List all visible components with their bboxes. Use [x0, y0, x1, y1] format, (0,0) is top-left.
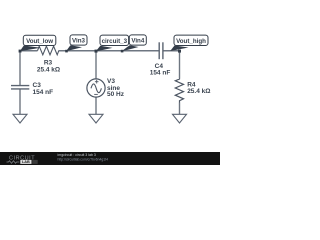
resistor R4 label — [187, 82, 210, 96]
node Vin4 flag wedge — [122, 45, 139, 51]
capacitor C4 — [159, 42, 163, 59]
node Vout_low tag — [23, 35, 56, 45]
capacitor C4 label — [150, 63, 171, 77]
watermark CircuitLab logo — [7, 156, 38, 165]
wire middle vertical lower (V3 bottom to ground) — [95, 97, 97, 114]
svg-text:Vout_low: Vout_low — [26, 38, 53, 45]
node Vin4 tag — [129, 35, 146, 45]
svg-text:imgcircuit : circuit 3 lab 3: imgcircuit : circuit 3 lab 3 — [58, 153, 96, 157]
node Vout_low flag wedge — [20, 46, 41, 52]
ground under V3 — [89, 114, 103, 123]
svg-text:154 nF: 154 nF — [150, 70, 171, 77]
junction dot at Vout_low corner — [19, 50, 22, 53]
svg-text:Vin4: Vin4 — [131, 38, 145, 45]
node circuit_3 flag wedge — [96, 46, 113, 52]
node circuit_3 tag — [100, 35, 129, 45]
wire right vertical lower (R4 bottom to ground) — [179, 103, 181, 115]
capacitor C3 label — [33, 82, 54, 96]
voltage source V3 label — [107, 78, 125, 98]
wire left vertical lower (C3 bottom plate to ground) — [19, 89, 21, 114]
wire top horizontal right segment (C4 right plate to corner) — [163, 50, 180, 52]
wire left vertical upper (corner to C3 top plate) — [19, 50, 21, 85]
resistor R3 label — [37, 60, 60, 74]
svg-text:50 Hz: 50 Hz — [107, 91, 125, 98]
wire right vertical upper (corner to R4 top) — [179, 50, 181, 78]
resistor R3 — [38, 46, 59, 55]
junction dot at Vin3 anchor — [65, 50, 68, 53]
resistor R4 — [175, 79, 183, 103]
wire top horizontal left segment (Vout_low node to R3) — [20, 50, 38, 52]
ground under R4 — [173, 114, 187, 123]
wire top horizontal middle segment (R3 to C4 left plate) — [59, 50, 160, 52]
voltage source V3 — [87, 79, 105, 97]
junction dot at Vin4 anchor — [121, 50, 124, 53]
junction dot at Vout_high corner — [178, 50, 181, 53]
capacitor C3 — [11, 86, 29, 89]
svg-text:154 nF: 154 nF — [33, 89, 54, 96]
junction dot at circuit_3 node — [95, 50, 98, 53]
node Vin3 tag — [70, 35, 87, 45]
svg-text:http://circuitlab.com/c/7bv6n4: http://circuitlab.com/c/7bv6n4g1t4 — [58, 157, 109, 161]
svg-text:Vout_high: Vout_high — [176, 38, 206, 45]
node Vin3 flag wedge — [66, 45, 82, 51]
wire middle vertical upper (circuit_3 node to V3 top) — [95, 50, 97, 79]
ground under C3 — [13, 114, 27, 123]
svg-text:circuit_3: circuit_3 — [102, 38, 128, 45]
node Vout_high tag — [174, 35, 208, 45]
svg-text:LAB: LAB — [22, 160, 30, 164]
node Vout_high flag wedge — [170, 46, 188, 52]
svg-text:Vin3: Vin3 — [72, 38, 86, 45]
svg-text:25.4 kΩ: 25.4 kΩ — [37, 66, 60, 73]
svg-text:25.4 kΩ: 25.4 kΩ — [187, 88, 210, 95]
watermark bar — [0, 152, 220, 165]
